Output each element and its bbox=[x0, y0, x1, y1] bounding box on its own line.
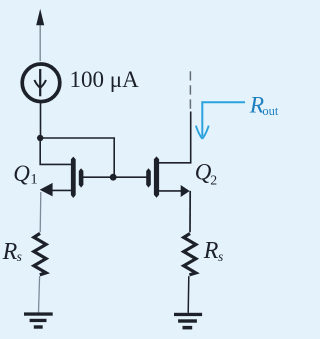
svg-text:R: R bbox=[2, 239, 18, 265]
wire: node A to gate riser bbox=[40, 138, 114, 177]
wire: top lead above current source bbox=[39, 25, 41, 62]
current source I1 circle bbox=[22, 64, 60, 102]
arrowhead at top (current direction up) bbox=[36, 9, 44, 26]
transistor Q2 channel bar bbox=[154, 156, 159, 197]
node A junction dot bbox=[37, 135, 43, 141]
svg-text:2: 2 bbox=[210, 173, 217, 188]
resistor Rs (right) bbox=[184, 234, 196, 275]
gate node junction dot bbox=[110, 174, 117, 181]
resistor Rs (left) bbox=[34, 233, 46, 274]
wire: current source to node A bbox=[40, 102, 42, 139]
transistor Q2 gate bar bbox=[146, 168, 151, 187]
svg-text:s: s bbox=[218, 249, 223, 264]
transistor Q1 channel bar bbox=[71, 157, 76, 198]
wire: Q2 source down to Rs bbox=[189, 191, 191, 232]
Q2 source wire with arrow bbox=[159, 190, 186, 192]
dashed line above Q2 drain bbox=[189, 71, 191, 109]
wire: Rs to ground (left) bbox=[39, 276, 40, 313]
svg-text:Q: Q bbox=[13, 161, 30, 186]
Q2 source arrowhead bbox=[181, 185, 190, 197]
ground (right) bbox=[174, 313, 202, 316]
svg-text:out: out bbox=[262, 104, 279, 118]
current source internal arrow (down) bbox=[39, 69, 41, 96]
transistor Q1 gate bar bbox=[79, 168, 84, 187]
Q1 source wire with arrow bbox=[44, 189, 71, 191]
Q1 source arrowhead bbox=[40, 183, 53, 197]
wire: node A down to Q1 drain bbox=[40, 140, 71, 164]
svg-text:Q: Q bbox=[195, 160, 212, 185]
svg-text:100 μA: 100 μA bbox=[70, 67, 140, 92]
svg-text:s: s bbox=[17, 249, 22, 264]
svg-text:1: 1 bbox=[30, 171, 38, 187]
wire: Q1 source down to Rs bbox=[39, 192, 42, 232]
Rout arrowhead (open, blue) bbox=[196, 126, 202, 139]
wire: Rs to ground (right) bbox=[187, 276, 190, 313]
Q2 drain wire up bbox=[159, 112, 191, 163]
wire: gate bus Q1 to Q2 bbox=[83, 176, 147, 178]
svg-text:R: R bbox=[203, 238, 219, 264]
ground (left) bbox=[24, 312, 53, 315]
Rout pointer (blue) bbox=[202, 102, 245, 136]
